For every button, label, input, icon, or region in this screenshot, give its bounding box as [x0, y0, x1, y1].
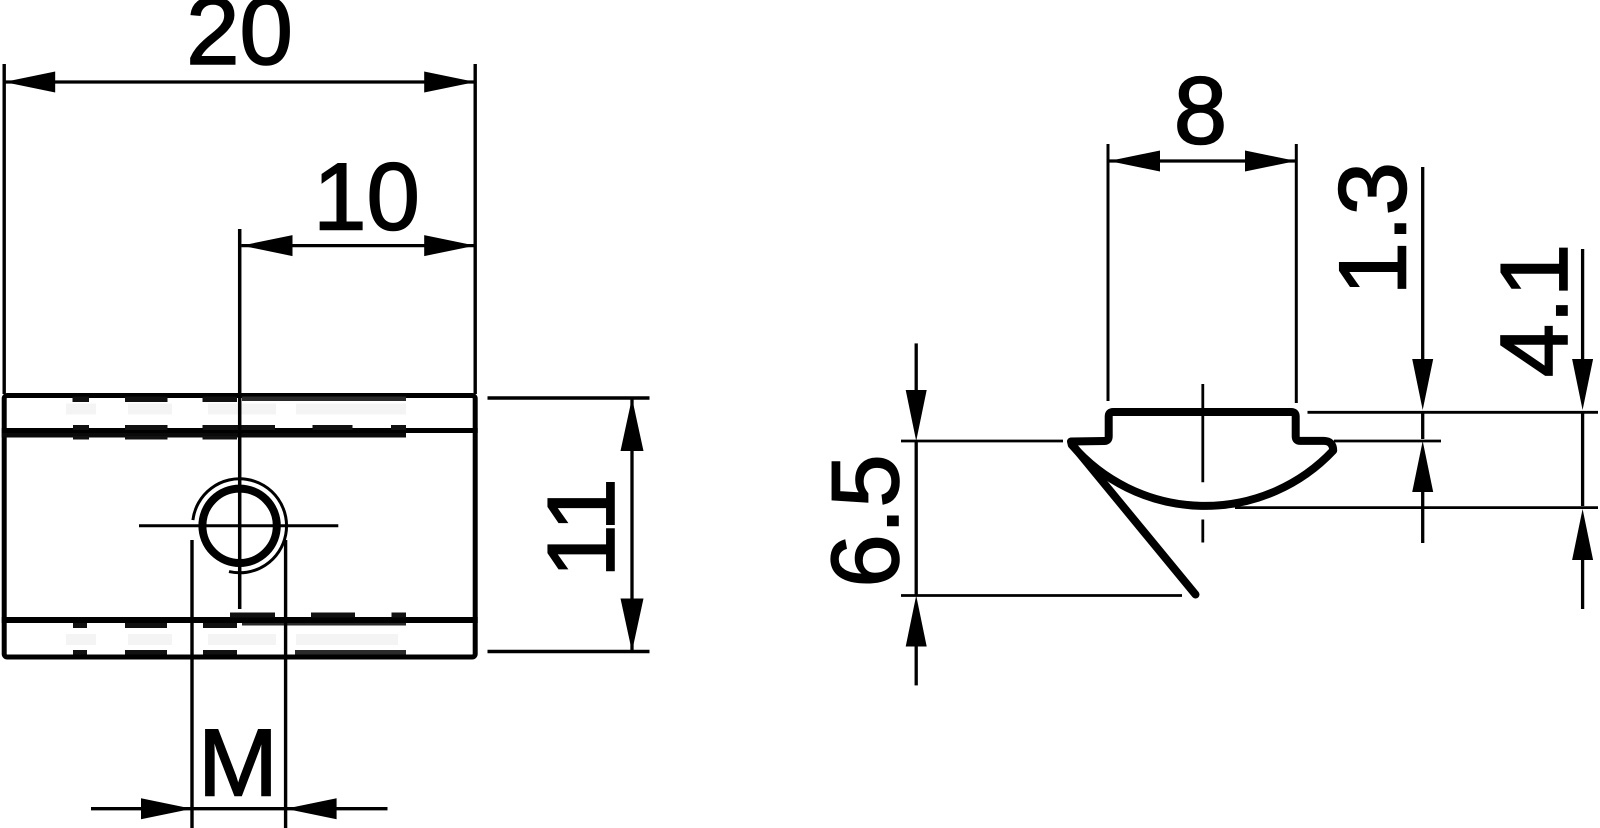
dim 4.1: middle segment [1581, 412, 1584, 506]
threaded hole minor circle [202, 489, 276, 563]
dim 8: arrow left [1109, 151, 1160, 172]
svg-text:10: 10 [313, 143, 420, 250]
dim 20: arrow left [4, 72, 55, 93]
faint knurl ghost bars bottom [66, 634, 398, 645]
dim 8: extension line left [1107, 144, 1110, 401]
vertical centerline [238, 229, 242, 609]
dim 8: arrow right [1245, 151, 1296, 172]
dim 4.1: arrow down [1572, 359, 1593, 410]
dim 20: arrow right [424, 72, 475, 93]
faint knurl ghost bars top [66, 404, 406, 415]
dim 6.5: middle segment [915, 441, 918, 596]
bottom inner edge line [2, 617, 478, 623]
top inner edge thickening left part [2, 433, 406, 438]
dim 20: dimension line [4, 80, 475, 83]
dim 1.3: middle segment [1421, 412, 1424, 439]
knurl dashes above bottom inner line [230, 613, 406, 618]
dim 8: extension line right [1295, 144, 1298, 403]
dim M: extension line left [190, 540, 193, 828]
dim 11: extension line bottom [488, 650, 650, 653]
horizontal centerline [139, 524, 338, 527]
dim M: arrow left (points right) [141, 798, 192, 819]
thread major arc [193, 479, 287, 573]
dim 6.5: upper tail [915, 343, 918, 392]
dim 10: arrow left [242, 235, 293, 256]
dim 8: dimension line [1109, 159, 1296, 162]
svg-text:M: M [198, 710, 278, 817]
extension line at leaf tip (y=595.5) [901, 594, 1182, 597]
dim 1.3: arrow up [1412, 441, 1433, 492]
nut body outline [4, 396, 475, 658]
dim 1.3: arrow down [1412, 359, 1433, 410]
profile vertical centerline (dash part) [1201, 520, 1204, 543]
knurl dashes below bottom inner line [73, 623, 406, 628]
dim 20: extension line right (shared with dim 10) [474, 64, 477, 394]
dim 11: arrow top [621, 398, 644, 451]
knurl dashes above top inner line [73, 425, 406, 430]
dim 4.1: lower tail [1581, 558, 1584, 609]
dim M: arrow right (points left) [286, 798, 337, 819]
dim 10: dimension line [242, 244, 476, 247]
profile outline of nut cross-section [1071, 412, 1333, 506]
svg-text:6.5: 6.5 [812, 454, 919, 587]
dim 1.3: upper tail [1421, 167, 1424, 360]
svg-text:4.1: 4.1 [1481, 244, 1588, 377]
extension line at arc bottom (y=507.6) [1235, 506, 1598, 509]
dim 4.1: upper tail [1581, 249, 1584, 360]
dim M: dimension line [91, 807, 388, 810]
knurl dashes above bottom border [73, 650, 406, 655]
dim 11: dimension line [630, 398, 633, 652]
dim 11: extension line top [488, 396, 650, 399]
dim 20: extension line left [2, 64, 5, 394]
svg-text:20: 20 [186, 0, 293, 85]
extension line at top face (y=412) [1308, 411, 1599, 414]
svg-text:1.3: 1.3 [1320, 162, 1427, 295]
top inner edge line [2, 428, 478, 433]
dim 6.5: arrow down [906, 390, 927, 441]
knurl dashes below top border [73, 397, 407, 403]
svg-text:8: 8 [1174, 58, 1227, 165]
dim 4.1: arrow up [1572, 509, 1593, 560]
svg-text:11: 11 [528, 478, 635, 578]
dim 10: arrow right [424, 235, 475, 256]
knurl dashes below top inner line [73, 436, 237, 440]
dim M: extension line right [284, 540, 287, 828]
dim 11: arrow bottom [621, 599, 644, 652]
dim 1.3: lower tail [1421, 490, 1424, 543]
extension line left at flange (y=441) [901, 440, 1063, 443]
profile vertical centerline (solid part) [1201, 384, 1204, 482]
dim 6.5: lower tail [915, 645, 918, 685]
dim 6.5: arrow up [906, 596, 927, 647]
spring leaf [1073, 445, 1196, 595]
extension line right at flange (y=441) [1334, 440, 1441, 443]
